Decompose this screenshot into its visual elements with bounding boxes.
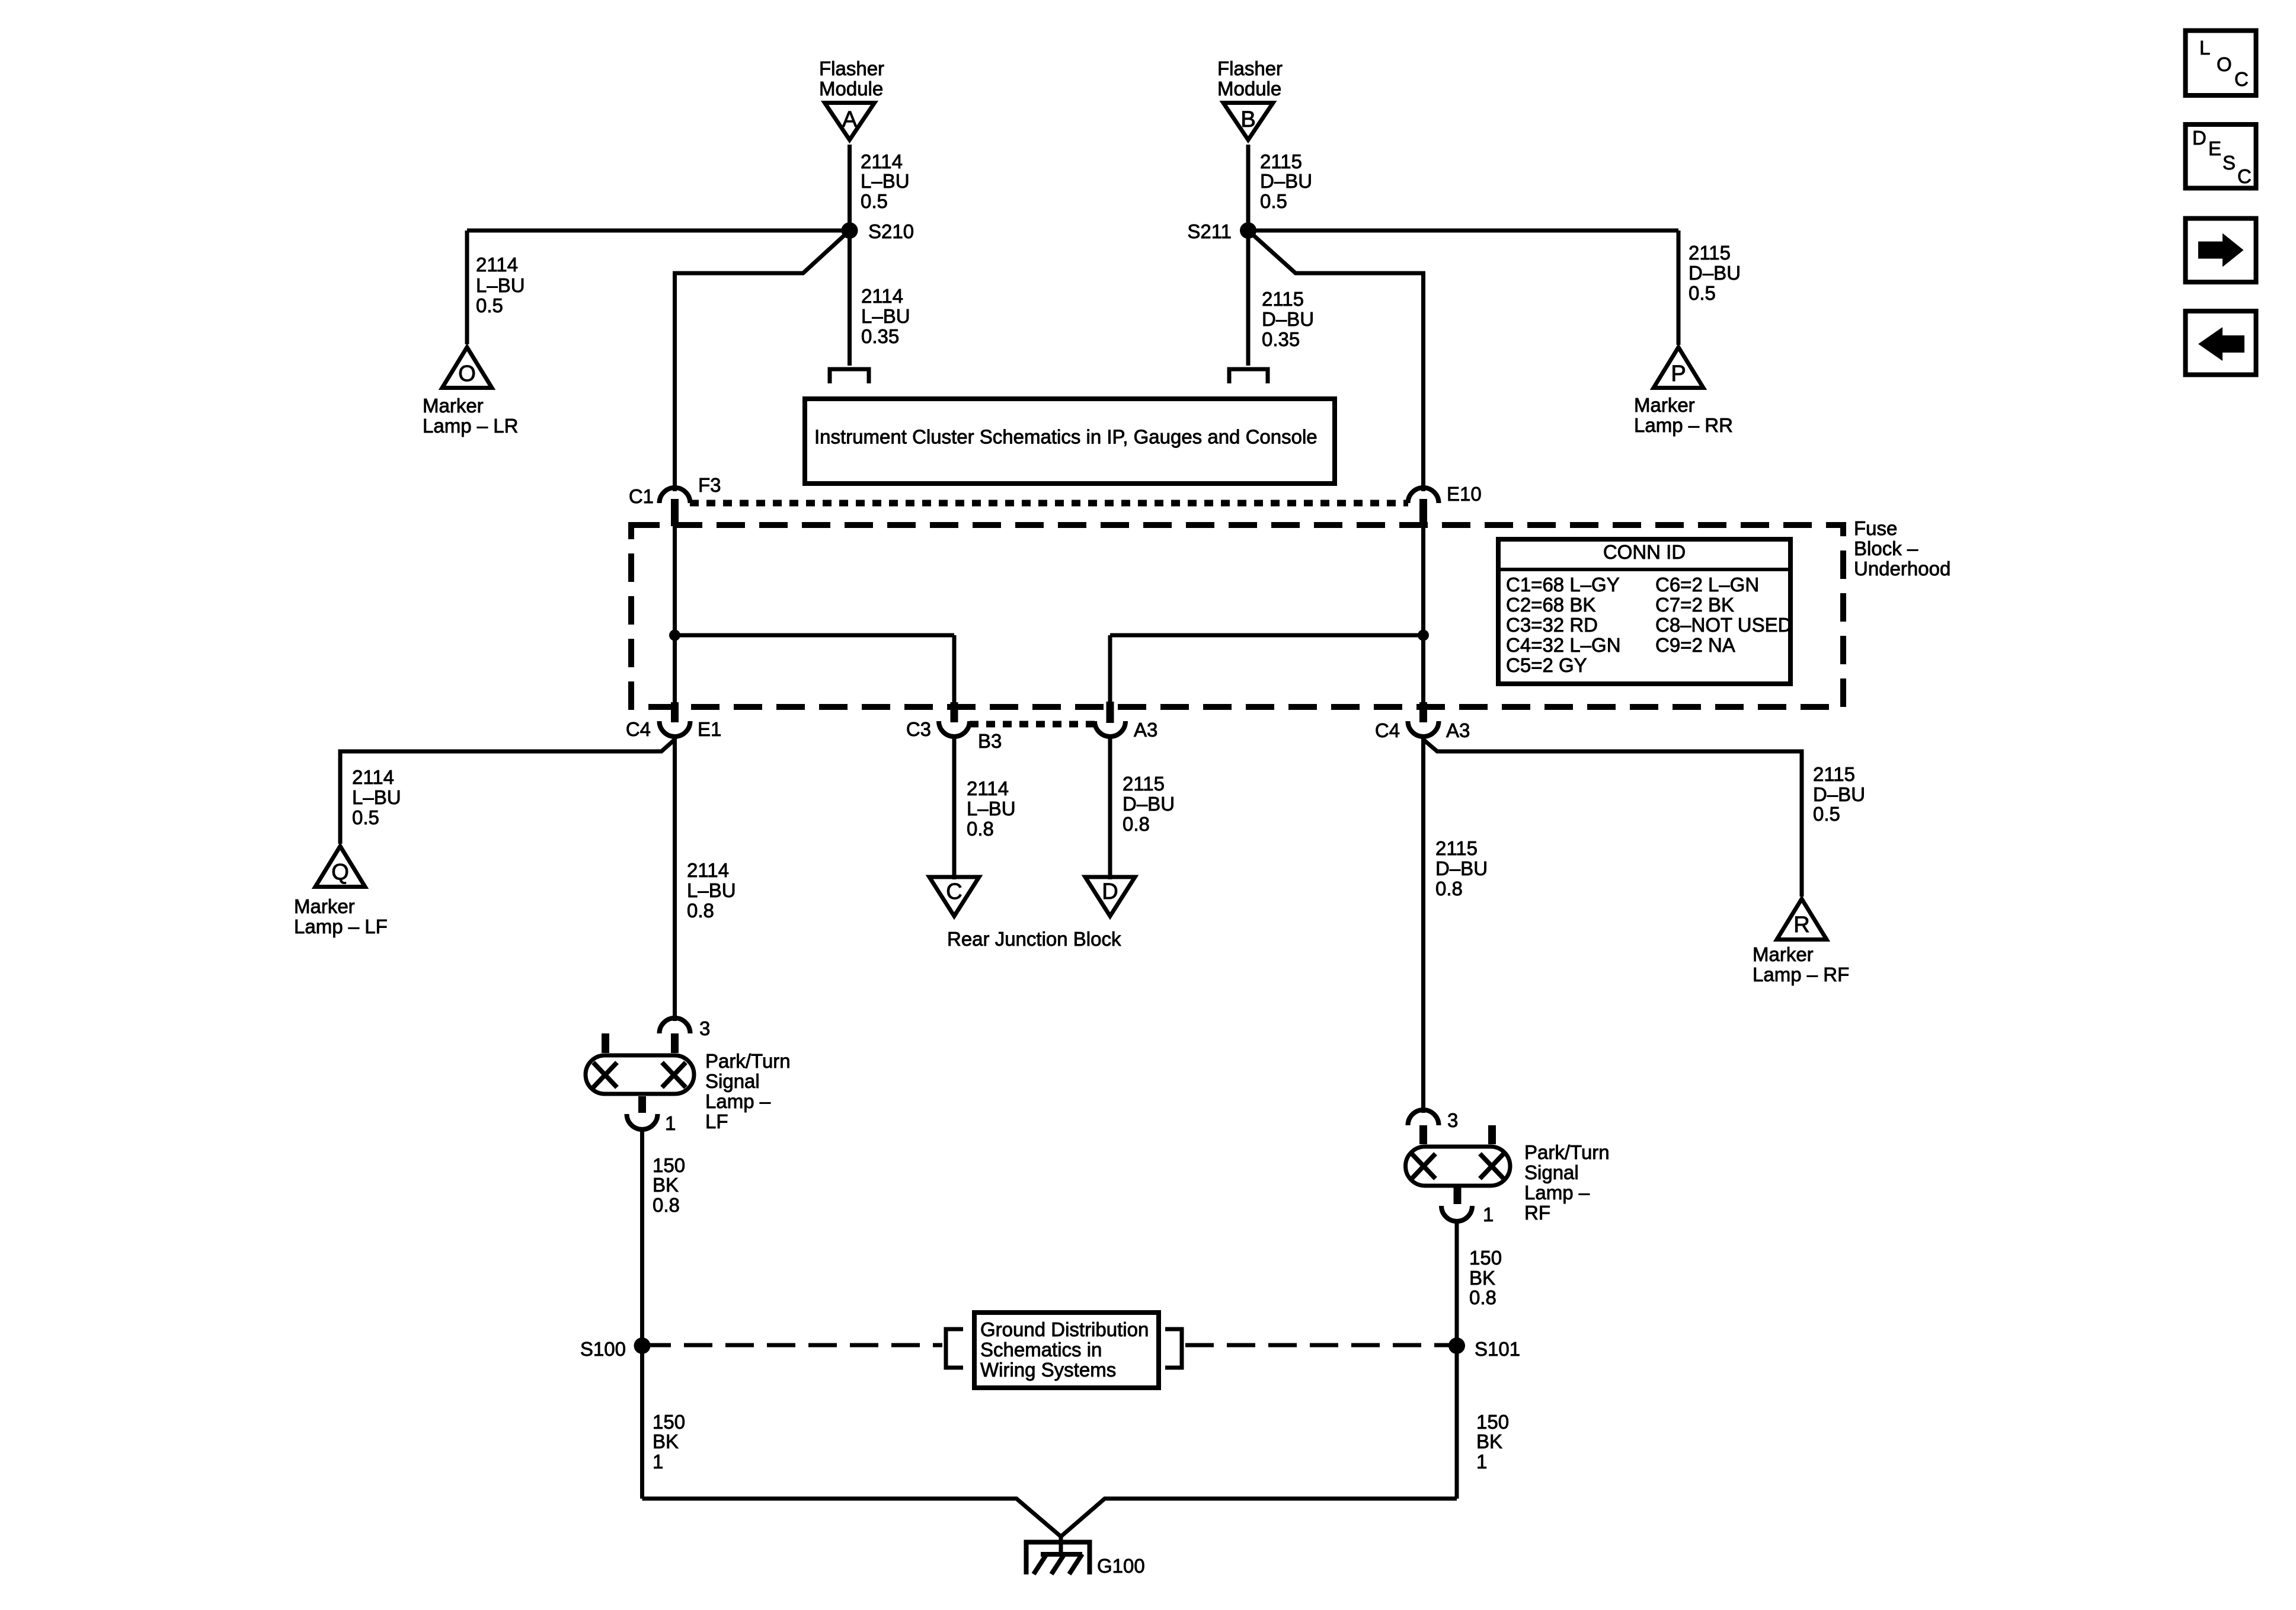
svg-text:150: 150 bbox=[653, 1411, 685, 1433]
svg-text:0.8: 0.8 bbox=[1469, 1286, 1496, 1308]
svg-text:G100: G100 bbox=[1097, 1555, 1145, 1577]
svg-text:C1=68 L–GY: C1=68 L–GY bbox=[1506, 574, 1620, 596]
svg-text:0.8: 0.8 bbox=[687, 900, 714, 921]
svg-text:2114: 2114 bbox=[352, 766, 394, 788]
svg-text:E: E bbox=[2208, 137, 2221, 159]
svg-text:2114: 2114 bbox=[861, 151, 903, 172]
svg-text:Lamp – RR: Lamp – RR bbox=[1634, 414, 1733, 436]
svg-text:Flasher: Flasher bbox=[1217, 57, 1283, 79]
svg-text:Signal: Signal bbox=[1524, 1161, 1579, 1183]
svg-text:C4: C4 bbox=[1375, 719, 1400, 741]
svg-text:L–BU: L–BU bbox=[967, 798, 1016, 820]
svg-text:2114: 2114 bbox=[476, 254, 518, 276]
svg-text:C4: C4 bbox=[626, 718, 651, 740]
svg-text:Rear Junction Block: Rear Junction Block bbox=[947, 928, 1121, 950]
svg-text:S: S bbox=[2223, 152, 2236, 174]
svg-text:L–BU: L–BU bbox=[861, 305, 910, 327]
svg-text:E1: E1 bbox=[698, 718, 721, 740]
svg-text:C: C bbox=[2234, 68, 2249, 90]
svg-text:B3: B3 bbox=[978, 730, 1002, 752]
svg-text:C: C bbox=[2237, 165, 2252, 187]
svg-text:D–BU: D–BU bbox=[1262, 308, 1314, 330]
svg-text:Lamp –: Lamp – bbox=[1524, 1182, 1590, 1204]
svg-text:2114: 2114 bbox=[687, 859, 729, 881]
svg-text:0.5: 0.5 bbox=[476, 295, 503, 316]
svg-text:BK: BK bbox=[653, 1430, 679, 1452]
svg-text:C7=2 BK: C7=2 BK bbox=[1655, 594, 1734, 616]
svg-text:D: D bbox=[2192, 127, 2207, 149]
svg-text:150: 150 bbox=[653, 1154, 685, 1176]
svg-text:Flasher: Flasher bbox=[819, 57, 884, 79]
svg-text:0.8: 0.8 bbox=[653, 1194, 680, 1216]
svg-text:C: C bbox=[946, 879, 962, 904]
svg-text:D–BU: D–BU bbox=[1260, 170, 1312, 192]
svg-text:A3: A3 bbox=[1134, 719, 1157, 741]
svg-text:D–BU: D–BU bbox=[1123, 793, 1175, 815]
svg-text:0.5: 0.5 bbox=[1689, 282, 1716, 304]
svg-text:0.5: 0.5 bbox=[352, 806, 379, 828]
svg-text:1: 1 bbox=[665, 1112, 676, 1134]
svg-text:BK: BK bbox=[1476, 1430, 1502, 1452]
svg-text:2115: 2115 bbox=[1262, 288, 1304, 310]
svg-text:F3: F3 bbox=[698, 474, 721, 496]
svg-text:Park/Turn: Park/Turn bbox=[1524, 1141, 1610, 1163]
svg-text:Module: Module bbox=[819, 78, 883, 100]
svg-text:P: P bbox=[1671, 361, 1686, 386]
svg-text:0.5: 0.5 bbox=[1813, 803, 1840, 825]
svg-text:1: 1 bbox=[1476, 1451, 1487, 1473]
svg-text:Marker: Marker bbox=[294, 895, 355, 917]
svg-text:0.8: 0.8 bbox=[1435, 878, 1463, 900]
svg-text:Marker: Marker bbox=[423, 395, 484, 417]
svg-text:LF: LF bbox=[705, 1110, 728, 1132]
svg-text:R: R bbox=[1793, 913, 1809, 937]
svg-text:0.8: 0.8 bbox=[1123, 813, 1150, 835]
svg-text:C9=2 NA: C9=2 NA bbox=[1655, 634, 1735, 656]
svg-text:Marker: Marker bbox=[1634, 394, 1695, 416]
svg-text:L–BU: L–BU bbox=[687, 879, 736, 901]
svg-text:O: O bbox=[2217, 53, 2232, 75]
svg-text:Module: Module bbox=[1217, 78, 1281, 100]
svg-text:D–BU: D–BU bbox=[1435, 857, 1488, 879]
svg-text:Lamp – LF: Lamp – LF bbox=[294, 916, 388, 937]
svg-text:150: 150 bbox=[1476, 1411, 1509, 1433]
svg-text:0.8: 0.8 bbox=[967, 818, 994, 840]
svg-text:C3=32 RD: C3=32 RD bbox=[1506, 614, 1598, 636]
svg-text:B: B bbox=[1240, 107, 1255, 132]
svg-text:Lamp –: Lamp – bbox=[705, 1090, 771, 1112]
svg-text:BK: BK bbox=[653, 1174, 679, 1196]
svg-text:Lamp – RF: Lamp – RF bbox=[1753, 964, 1849, 985]
svg-text:BK: BK bbox=[1469, 1267, 1495, 1289]
svg-text:1: 1 bbox=[1483, 1204, 1494, 1225]
svg-text:0.35: 0.35 bbox=[1262, 328, 1300, 350]
svg-text:Marker: Marker bbox=[1753, 943, 1814, 965]
svg-text:Lamp – LR: Lamp – LR bbox=[423, 415, 518, 437]
svg-text:L–BU: L–BU bbox=[861, 170, 910, 192]
svg-text:CONN ID: CONN ID bbox=[1603, 541, 1686, 563]
svg-text:2114: 2114 bbox=[967, 777, 1009, 799]
svg-text:2114: 2114 bbox=[861, 285, 903, 307]
svg-text:Fuse: Fuse bbox=[1854, 517, 1897, 539]
svg-text:3: 3 bbox=[1447, 1109, 1458, 1131]
svg-text:C1: C1 bbox=[629, 485, 654, 507]
svg-text:Ground Distribution: Ground Distribution bbox=[980, 1318, 1149, 1340]
svg-text:C8–NOT USED: C8–NOT USED bbox=[1655, 614, 1792, 636]
svg-text:2115: 2115 bbox=[1689, 242, 1731, 264]
svg-text:C4=32 L–GN: C4=32 L–GN bbox=[1506, 634, 1621, 656]
svg-text:C5=2 GY: C5=2 GY bbox=[1506, 654, 1587, 676]
svg-text:E10: E10 bbox=[1447, 483, 1482, 505]
svg-text:1: 1 bbox=[653, 1451, 663, 1473]
svg-text:150: 150 bbox=[1469, 1247, 1502, 1269]
svg-text:D–BU: D–BU bbox=[1689, 262, 1741, 284]
svg-text:C2=68 BK: C2=68 BK bbox=[1506, 594, 1595, 616]
svg-text:RF: RF bbox=[1524, 1202, 1550, 1224]
svg-text:A: A bbox=[842, 107, 858, 132]
svg-text:Block –: Block – bbox=[1854, 537, 1918, 559]
svg-text:S211: S211 bbox=[1187, 220, 1232, 242]
svg-text:L–BU: L–BU bbox=[476, 274, 525, 296]
svg-text:A3: A3 bbox=[1446, 719, 1470, 741]
svg-text:0.5: 0.5 bbox=[861, 190, 888, 212]
svg-text:C3: C3 bbox=[906, 718, 931, 740]
svg-text:0.5: 0.5 bbox=[1260, 190, 1287, 212]
svg-text:S100: S100 bbox=[580, 1338, 626, 1360]
svg-text:Signal: Signal bbox=[705, 1070, 760, 1092]
svg-text:Q: Q bbox=[331, 860, 349, 885]
svg-text:2115: 2115 bbox=[1123, 773, 1165, 795]
svg-text:Wiring Systems: Wiring Systems bbox=[980, 1359, 1116, 1381]
svg-text:Underhood: Underhood bbox=[1854, 558, 1950, 580]
svg-text:S101: S101 bbox=[1475, 1338, 1520, 1360]
svg-text:C6=2 L–GN: C6=2 L–GN bbox=[1655, 574, 1759, 596]
svg-text:2115: 2115 bbox=[1813, 763, 1855, 785]
svg-text:0.35: 0.35 bbox=[861, 325, 899, 347]
svg-text:3: 3 bbox=[699, 1017, 710, 1039]
svg-text:2115: 2115 bbox=[1435, 837, 1478, 859]
svg-text:L–BU: L–BU bbox=[352, 786, 401, 808]
svg-text:S210: S210 bbox=[868, 220, 914, 242]
svg-text:D: D bbox=[1102, 879, 1118, 904]
svg-text:O: O bbox=[458, 361, 476, 386]
svg-text:Schematics in: Schematics in bbox=[980, 1339, 1102, 1361]
svg-text:L: L bbox=[2199, 37, 2210, 59]
svg-text:Instrument Cluster Schematics: Instrument Cluster Schematics in IP, Gau… bbox=[814, 426, 1318, 448]
svg-text:2115: 2115 bbox=[1260, 151, 1302, 172]
svg-text:Park/Turn: Park/Turn bbox=[705, 1050, 791, 1072]
svg-text:D–BU: D–BU bbox=[1813, 783, 1865, 805]
